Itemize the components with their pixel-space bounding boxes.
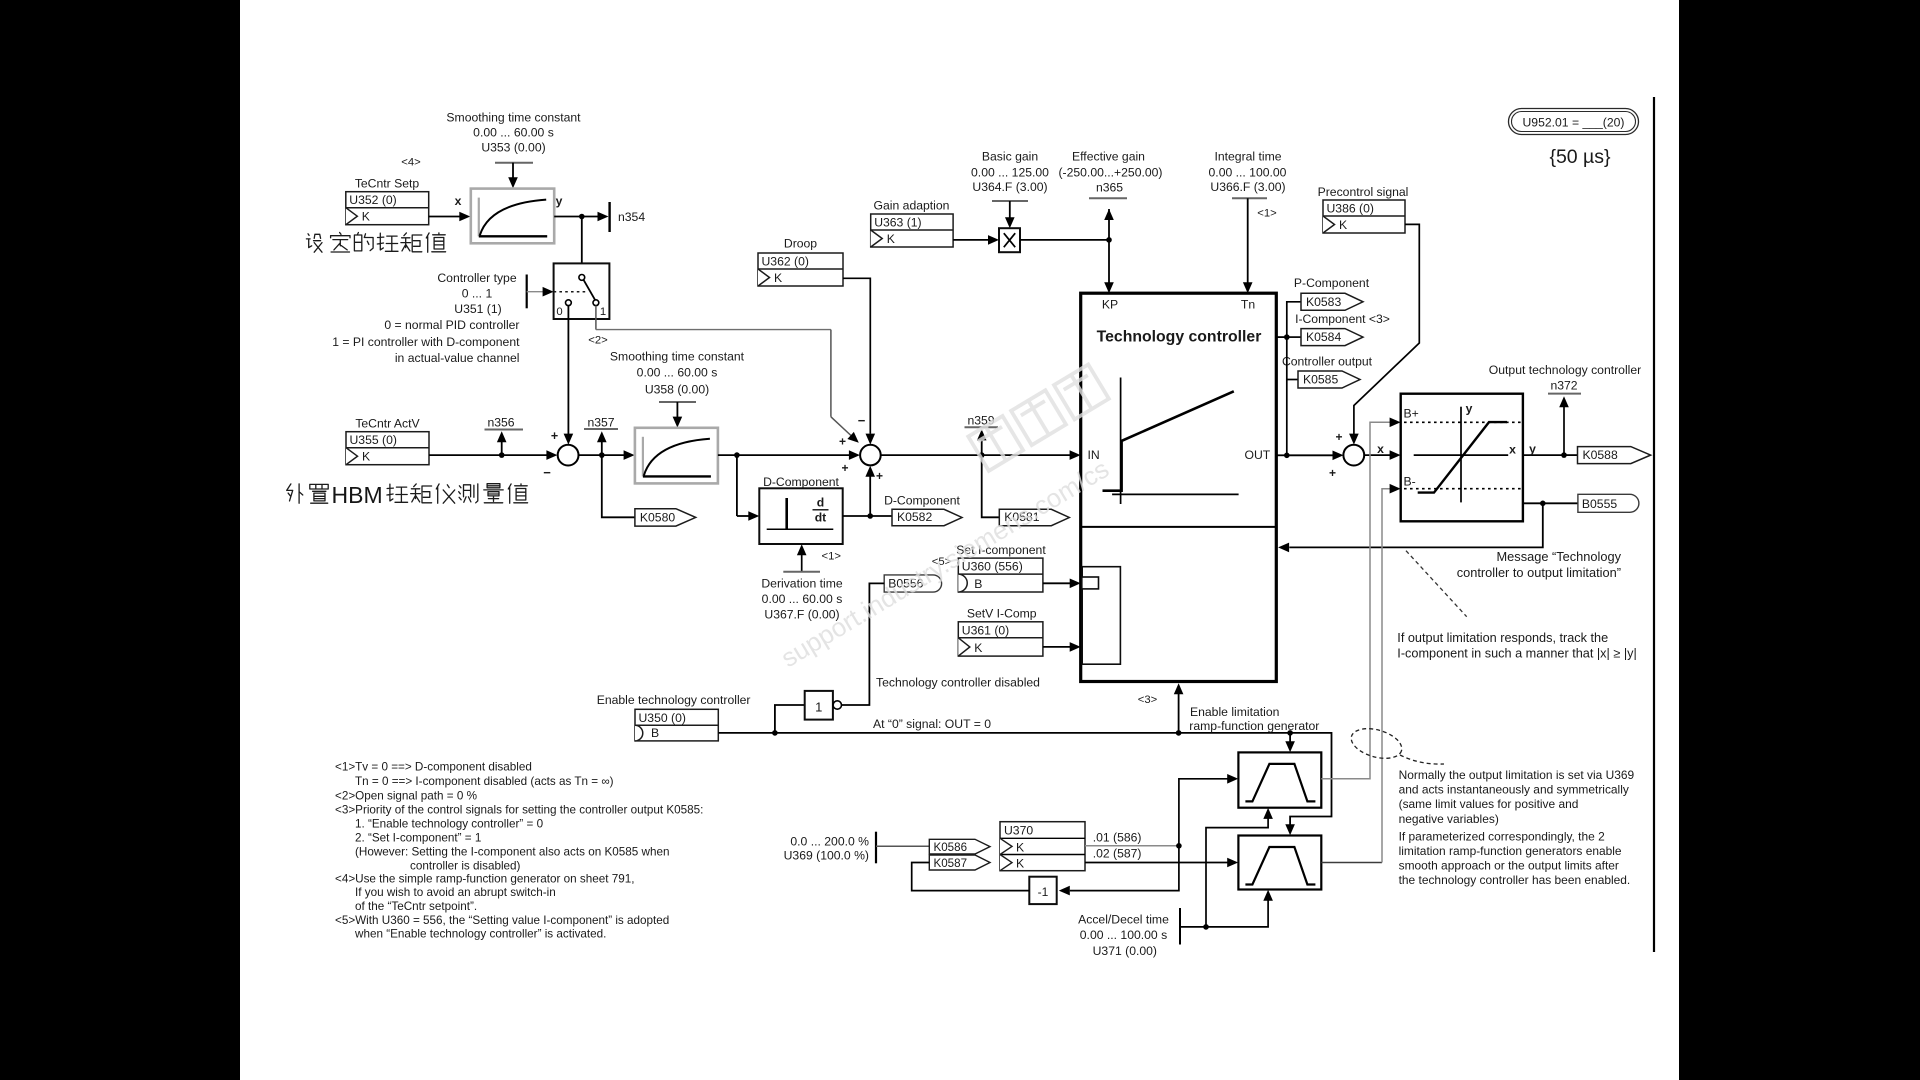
wire OUT to summing 3 xyxy=(1276,451,1343,461)
svg-text:Enable limitation: Enable limitation xyxy=(1190,705,1279,719)
input connector K0586 xyxy=(929,839,990,854)
svg-text:−: − xyxy=(543,465,551,480)
svg-text:n356: n356 xyxy=(487,416,514,430)
wire to K0580 xyxy=(602,455,635,517)
ramp-function generator 1 xyxy=(1238,752,1321,807)
param label U353 xyxy=(446,111,581,155)
wire switch 0 down to summing point 1 xyxy=(564,306,574,445)
svg-text:d: d xyxy=(817,496,824,510)
svg-text:<3>Priority of the control sig: <3>Priority of the control signals for s… xyxy=(335,803,703,816)
wire droop to summing 2 (minus) xyxy=(843,278,875,444)
wire block2 to summing point 2 xyxy=(718,450,860,460)
annotation chinese: set torque value xyxy=(306,234,322,252)
annotation chinese: external HBM torque meter measured value xyxy=(287,484,303,503)
wire U355 to summing point 1 xyxy=(429,450,557,460)
terminal bar n354 xyxy=(608,202,610,232)
svg-text:x: x xyxy=(1377,442,1384,456)
svg-text:K0587: K0587 xyxy=(934,857,968,870)
smoothing block 2 (PT1) xyxy=(635,428,718,484)
binector output B0555 xyxy=(1578,494,1639,512)
svg-text:I-Component <3>: I-Component <3> xyxy=(1295,312,1390,326)
svg-text:TeCntr ActV: TeCntr ActV xyxy=(355,417,420,431)
wire U361 to controller xyxy=(1043,642,1081,652)
svg-text:+: + xyxy=(839,435,846,449)
svg-text:K: K xyxy=(1016,857,1024,871)
svg-text:Droop: Droop xyxy=(784,237,817,251)
svg-text:P-Component: P-Component xyxy=(1294,276,1370,290)
connector U386 precontrol xyxy=(1323,200,1405,233)
svg-text:If output limitation responds,: If output limitation responds, track the xyxy=(1397,631,1608,645)
monitor n372 xyxy=(1489,363,1641,455)
svg-text:K: K xyxy=(1016,841,1024,855)
param accel/decel time U371 xyxy=(1078,908,1180,958)
svg-text:U350 (0): U350 (0) xyxy=(639,711,686,725)
summing circle 2 xyxy=(860,445,881,466)
summing circle 1 xyxy=(558,445,579,466)
svg-text:B: B xyxy=(974,577,982,591)
wire inverter to B0556 xyxy=(842,583,885,705)
svg-text:+: + xyxy=(876,469,883,483)
wire U363 to multiplier xyxy=(953,235,999,245)
feedback wire to controller (track I-component) xyxy=(1278,503,1543,552)
wire D-block output xyxy=(843,513,892,519)
param integral time xyxy=(1209,150,1287,199)
svg-text:U352 (0): U352 (0) xyxy=(349,193,396,207)
connector U361 xyxy=(958,622,1043,656)
svg-text:Basic gain: Basic gain xyxy=(982,150,1038,164)
svg-text:K: K xyxy=(362,450,370,464)
svg-text:KP: KP xyxy=(1102,298,1118,312)
wire ramp2 output to B- (grey) xyxy=(1321,484,1400,863)
wire enable arrow into controller bottom xyxy=(1174,683,1184,733)
svg-text:<5>With U360 = 556, the “Setti: <5>With U360 = 556, the “Setting value I… xyxy=(335,914,669,927)
svg-text:+: + xyxy=(1329,466,1336,480)
svg-text:K: K xyxy=(362,210,370,224)
label switch meaning xyxy=(332,318,520,365)
svg-text:n359: n359 xyxy=(967,414,994,428)
svg-text:K0583: K0583 xyxy=(1306,295,1341,309)
svg-text:HBM: HBM xyxy=(332,482,383,508)
svg-text:U358 (0.00): U358 (0.00) xyxy=(645,383,709,397)
svg-text:K: K xyxy=(1339,218,1347,232)
monitor n356 xyxy=(485,416,524,456)
label controller type xyxy=(437,271,516,316)
wire summing1 to block2 xyxy=(579,450,635,460)
svg-text:Smoothing time constant: Smoothing time constant xyxy=(446,111,581,125)
limiter B- dotted level xyxy=(1404,488,1521,490)
svg-text:+: + xyxy=(841,461,848,475)
note normally output limitation xyxy=(1399,768,1635,826)
inverter block -1 xyxy=(1029,877,1056,904)
svg-text:<4>: <4> xyxy=(401,157,421,169)
svg-text:<1>Tv = 0 ==> D-component disa: <1>Tv = 0 ==> D-component disabled xyxy=(335,761,532,774)
svg-text:0.00 ... 60.00 s: 0.00 ... 60.00 s xyxy=(762,592,843,606)
svg-text:Tn = 0 ==> I-component disable: Tn = 0 ==> I-component disabled (acts as… xyxy=(355,775,614,788)
svg-text:K0580: K0580 xyxy=(640,511,675,525)
connector U360 xyxy=(958,558,1043,592)
svg-text:in actual-value channel: in actual-value channel xyxy=(395,351,520,365)
svg-text:Integral time: Integral time xyxy=(1214,150,1281,164)
svg-text:K: K xyxy=(974,641,982,655)
wire switch 1 to summing 2 xyxy=(596,306,862,447)
wire U353 into block1 top xyxy=(508,163,518,189)
svg-text:y: y xyxy=(1529,442,1536,456)
param tick U364 xyxy=(992,200,1028,202)
right sheet border xyxy=(1653,97,1655,952)
svg-text:0.00 ... 60.00 s: 0.00 ... 60.00 s xyxy=(637,366,718,380)
connector U355 xyxy=(346,432,429,465)
svg-text:Technology controller disabled: Technology controller disabled xyxy=(876,676,1040,690)
svg-text:Gain adaption: Gain adaption xyxy=(874,199,950,213)
svg-text:U371 (0.00): U371 (0.00) xyxy=(1093,944,1157,958)
switch lever xyxy=(584,280,596,300)
svg-text:<4>Use the simple ramp-functio: <4>Use the simple ramp-function generato… xyxy=(335,873,635,886)
param label U358 xyxy=(610,350,745,397)
ramp-function generator 2 xyxy=(1238,836,1321,890)
wire limiter to B0555 xyxy=(1523,501,1578,507)
svg-text:y: y xyxy=(556,194,563,208)
output connector K0588 xyxy=(1578,447,1651,464)
technology controller block xyxy=(1081,293,1277,681)
svg-text:TeCntr Setp: TeCntr Setp xyxy=(355,177,420,191)
svg-text:1: 1 xyxy=(815,700,822,715)
svg-text:U351 (1): U351 (1) xyxy=(454,302,501,316)
output limiter block xyxy=(1401,394,1523,522)
multiplier block xyxy=(999,228,1020,252)
wire U351 to switch xyxy=(527,287,554,297)
svg-text:2. “Set I-component” = 1: 2. “Set I-component” = 1 xyxy=(355,831,481,844)
svg-text:SetV I-Comp: SetV I-Comp xyxy=(967,607,1037,621)
svg-text:controller is disabled): controller is disabled) xyxy=(410,859,521,872)
svg-text:U369 (100.0 %): U369 (100.0 %) xyxy=(784,849,869,863)
monitor n365 / KP feed xyxy=(1058,150,1162,294)
svg-text:1. “Enable technology controll: 1. “Enable technology controller” = 0 xyxy=(355,817,544,830)
svg-text:ramp-function generator: ramp-function generator xyxy=(1189,719,1319,733)
output connector K0584 xyxy=(1301,329,1363,346)
wire U352 to smoothing block 1 xyxy=(429,212,471,222)
svg-text:0.00 ... 60.00 s: 0.00 ... 60.00 s xyxy=(473,126,554,140)
white sheet xyxy=(240,0,1679,1080)
wire U358 into block2 top xyxy=(673,402,683,428)
svg-text:x: x xyxy=(1509,443,1516,457)
svg-text:K0584: K0584 xyxy=(1306,330,1341,344)
svg-text:Effective gain: Effective gain xyxy=(1072,150,1145,164)
svg-text:0.0 ... 200.0 %: 0.0 ... 200.0 % xyxy=(790,834,869,848)
wire into ramp1 top xyxy=(1285,733,1295,752)
wire n354 junction down to switch xyxy=(581,217,583,264)
connector U362 droop xyxy=(758,253,843,286)
binector output B0556 xyxy=(884,575,941,592)
wire to K0584 xyxy=(1287,336,1301,338)
dashed ellipse tail xyxy=(1400,755,1444,764)
svg-text:and acts instantaneously and s: and acts instantaneously and symmetrical… xyxy=(1399,783,1629,797)
param bar U351 xyxy=(526,275,528,309)
svg-text:Message “Technology: Message “Technology xyxy=(1497,549,1622,564)
svg-text:n357: n357 xyxy=(587,416,614,430)
param tick U353 xyxy=(495,162,533,164)
wire -1 to K0587 xyxy=(912,863,1030,891)
svg-text:smooth approach or the output: smooth approach or the output limits aft… xyxy=(1399,859,1619,873)
param tick U358 xyxy=(659,401,696,403)
svg-text:Controller type: Controller type xyxy=(437,271,516,285)
output connector K0580 xyxy=(635,509,696,526)
switch contact top xyxy=(579,275,585,281)
dashed emphasis ellipse xyxy=(1348,723,1405,763)
wire D-component up into summing 2 xyxy=(865,466,875,516)
svg-text:U363 (1): U363 (1) xyxy=(874,216,921,230)
wire branch to inverter xyxy=(775,705,805,733)
svg-text:<2>Open signal path = 0 %: <2>Open signal path = 0 % xyxy=(335,789,477,802)
note if output limitation xyxy=(1397,631,1636,661)
svg-text:-1: -1 xyxy=(1038,885,1049,899)
svg-text:1 = PI controller with D-compo: 1 = PI controller with D-component xyxy=(332,335,520,349)
controller characteristic graph xyxy=(1103,378,1239,505)
svg-text:<1>: <1> xyxy=(822,551,842,563)
wire U360 to set input xyxy=(1043,579,1081,589)
svg-text:K0582: K0582 xyxy=(897,510,932,524)
svg-text:B0555: B0555 xyxy=(1582,497,1617,511)
svg-text:+: + xyxy=(551,429,558,443)
svg-text:of the “TeCntr setpoint”.: of the “TeCntr setpoint”. xyxy=(355,900,477,913)
enable wire main xyxy=(718,730,1331,835)
switch contact 0 xyxy=(566,300,572,306)
message dashed leader xyxy=(1406,551,1467,617)
svg-text:{50 µs}: {50 µs} xyxy=(1549,146,1611,168)
connector U363 gain adaption xyxy=(871,214,953,247)
svg-text:U355 (0): U355 (0) xyxy=(350,433,397,447)
svg-text:B-: B- xyxy=(1404,475,1416,489)
svg-text:0 = normal PID controller: 0 = normal PID controller xyxy=(384,318,519,332)
svg-text:OUT: OUT xyxy=(1245,448,1271,462)
svg-text:U361 (0): U361 (0) xyxy=(962,623,1009,637)
limiter B+ dotted level xyxy=(1404,421,1521,423)
wire U369 to K0586 xyxy=(876,845,929,847)
param basic gain xyxy=(971,150,1049,195)
output connector K0582 xyxy=(892,509,962,525)
svg-text:n365: n365 xyxy=(1096,181,1123,195)
label Enable limitation xyxy=(1189,705,1319,733)
svg-text:If parameterized corresponding: If parameterized correspondingly, the 2 xyxy=(1399,829,1606,843)
wire limiter y out xyxy=(1523,452,1578,458)
connector block U370 xyxy=(1000,822,1085,871)
wire to -1 block xyxy=(1059,846,1179,896)
svg-text:<2>: <2> xyxy=(588,334,608,346)
svg-text:At “0” signal: OUT = 0: At “0” signal: OUT = 0 xyxy=(873,717,991,731)
svg-text:negative variables): negative variables) xyxy=(1399,812,1499,826)
svg-text:U362 (0): U362 (0) xyxy=(762,255,809,269)
svg-text:limitation ramp-function gener: limitation ramp-function generators enab… xyxy=(1399,844,1622,858)
connector U352 xyxy=(346,192,429,225)
wire summing3 to limiter xyxy=(1364,450,1400,460)
wire U364 into multiplier xyxy=(1005,201,1015,228)
svg-text:U366.F (3.00): U366.F (3.00) xyxy=(1210,180,1285,194)
wire ramp1 output to B+ (grey) xyxy=(1321,418,1400,779)
svg-text:K0586: K0586 xyxy=(934,841,968,854)
svg-text:K0585: K0585 xyxy=(1303,373,1338,387)
D-component block xyxy=(759,488,842,544)
svg-text:<1>: <1> xyxy=(1257,208,1277,220)
svg-text:Output technology controller: Output technology controller xyxy=(1489,363,1641,377)
svg-text:0.00 ... 100.00 s: 0.00 ... 100.00 s xyxy=(1080,928,1167,942)
input connector K0587 xyxy=(929,855,990,870)
svg-text:dt: dt xyxy=(815,511,827,525)
svg-text:(same limit values for positiv: (same limit values for positive and xyxy=(1399,797,1579,811)
svg-text:U386 (0): U386 (0) xyxy=(1327,202,1374,216)
svg-text:.02 (587): .02 (587) xyxy=(1093,847,1142,861)
wire Tn input xyxy=(1243,198,1253,293)
svg-text:y: y xyxy=(1466,402,1473,416)
svg-text:+: + xyxy=(1335,430,1342,444)
svg-text:.01 (586): .01 (586) xyxy=(1093,831,1142,845)
svg-text:K: K xyxy=(774,271,782,285)
label message technology xyxy=(1457,549,1622,580)
param derivation time xyxy=(761,544,842,621)
svg-text:U364.F (3.00): U364.F (3.00) xyxy=(972,180,1047,194)
wire to K0581 xyxy=(982,455,1000,517)
svg-text:B+: B+ xyxy=(1404,407,1419,421)
wire to D-component block xyxy=(737,455,759,521)
switch contact 1 xyxy=(593,300,599,306)
svg-text:x: x xyxy=(455,194,462,208)
summing circle 3 xyxy=(1343,445,1364,466)
monitor n359 xyxy=(965,414,999,456)
svg-text:Controller output: Controller output xyxy=(1282,355,1373,369)
svg-text:when “Enable technology contro: when “Enable technology controller” is a… xyxy=(354,928,606,941)
inverter gate 1 xyxy=(805,691,842,720)
svg-text:0.00 ... 125.00: 0.00 ... 125.00 xyxy=(971,166,1049,180)
svg-text:<3>: <3> xyxy=(1138,694,1158,706)
svg-text:If you wish to avoid an abrupt: If you wish to avoid an abrupt switch-in xyxy=(355,886,556,899)
svg-text:1: 1 xyxy=(600,306,606,318)
switch U351 box xyxy=(554,263,610,319)
svg-text:Derivation time: Derivation time xyxy=(761,577,842,591)
svg-text:U370: U370 xyxy=(1004,824,1033,838)
wire U370.01 to ramp1 xyxy=(1085,774,1238,849)
limiter characteristic xyxy=(1418,422,1507,493)
limiter axes xyxy=(1414,407,1509,503)
watermark xyxy=(776,364,1114,673)
output connector K0583 xyxy=(1301,293,1363,310)
svg-text:(However: Setting the I-compon: (However: Setting the I-component also a… xyxy=(355,845,669,858)
svg-text:D-Component: D-Component xyxy=(884,494,960,508)
svg-text:the technology controller has: the technology controller has been enabl… xyxy=(1399,873,1631,887)
svg-text:n372: n372 xyxy=(1550,379,1577,393)
svg-text:0.00 ... 100.00: 0.00 ... 100.00 xyxy=(1209,166,1287,180)
wire to K0583 xyxy=(1276,302,1301,340)
switch dashed path xyxy=(554,291,586,293)
svg-text:Technology controller: Technology controller xyxy=(1097,328,1262,345)
sheet number pill U952.01 xyxy=(1509,109,1639,135)
connector U350 xyxy=(635,709,718,741)
svg-text:U952.01 = ___(20): U952.01 = ___(20) xyxy=(1523,116,1625,130)
svg-text:(-250.00...+250.00): (-250.00...+250.00) xyxy=(1058,166,1162,180)
svg-text:n354: n354 xyxy=(618,210,645,224)
svg-text:D-Component: D-Component xyxy=(763,475,839,489)
svg-text:B: B xyxy=(651,726,659,740)
wire summing2 to controller IN xyxy=(881,450,1081,460)
svg-text:Tn: Tn xyxy=(1241,298,1255,312)
wire multiplier to KP xyxy=(1020,237,1112,243)
svg-text:Accel/Decel time: Accel/Decel time xyxy=(1078,913,1169,927)
note if parameterized xyxy=(1399,829,1631,887)
monitor n357 xyxy=(584,416,618,456)
wire U370.02 to ramp2 xyxy=(1085,858,1238,868)
svg-text:Smoothing time constant: Smoothing time constant xyxy=(610,350,745,364)
svg-text:K0588: K0588 xyxy=(1583,448,1618,462)
wire block1 to n354 xyxy=(554,212,608,222)
svg-text:0 ... 1: 0 ... 1 xyxy=(462,287,493,301)
wire rail to K0585 and OUT xyxy=(1287,337,1298,455)
svg-text:U353 (0.00): U353 (0.00) xyxy=(481,141,545,155)
param U369 xyxy=(784,832,876,864)
svg-text:I-component in such a manner t: I-component in such a manner that |x| ≥ … xyxy=(1397,647,1636,661)
smoothing block 1 (PT1) xyxy=(471,189,554,244)
svg-text:Precontrol signal: Precontrol signal xyxy=(1318,185,1409,199)
wire precontrol to summing 3 xyxy=(1349,224,1419,444)
svg-text:0: 0 xyxy=(556,306,562,318)
svg-text:Normally the output limitation: Normally the output limitation is set vi… xyxy=(1399,768,1635,782)
inner set input square xyxy=(1082,577,1099,589)
svg-text:K: K xyxy=(887,232,895,246)
svg-text:−: − xyxy=(858,413,866,428)
svg-text:controller to output limitatio: controller to output limitation” xyxy=(1457,565,1621,580)
output connector K0581 xyxy=(999,509,1069,525)
wire U371 to ramp generators xyxy=(1180,808,1273,930)
inner set-logic rectangle xyxy=(1082,567,1120,665)
output connector K0585 xyxy=(1298,371,1360,388)
svg-text:Enable technology controller: Enable technology controller xyxy=(597,693,751,707)
